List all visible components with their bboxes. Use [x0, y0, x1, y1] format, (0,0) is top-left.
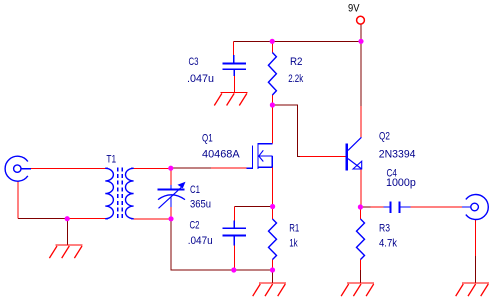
svg-text:Q1: Q1 [202, 132, 213, 144]
svg-text:2N3394: 2N3394 [379, 149, 416, 161]
svg-text:Q2: Q2 [379, 131, 390, 143]
svg-text:2.2k: 2.2k [288, 73, 303, 85]
svg-text:C2: C2 [190, 219, 200, 231]
svg-text:4.7k: 4.7k [379, 238, 397, 250]
svg-text:9V: 9V [348, 3, 360, 15]
svg-text:R2: R2 [290, 56, 303, 68]
svg-text:R3: R3 [379, 223, 390, 235]
svg-text:R1: R1 [289, 223, 299, 235]
svg-text:40468A: 40468A [202, 149, 240, 161]
svg-text:C3: C3 [189, 56, 199, 68]
svg-text:.047u: .047u [187, 73, 214, 85]
svg-text:T1: T1 [106, 154, 116, 166]
svg-text:.047u: .047u [188, 235, 213, 247]
svg-text:1000p: 1000p [386, 177, 416, 189]
svg-text:1k: 1k [289, 238, 298, 250]
svg-text:365u: 365u [190, 199, 211, 211]
svg-text:C1: C1 [190, 184, 200, 196]
